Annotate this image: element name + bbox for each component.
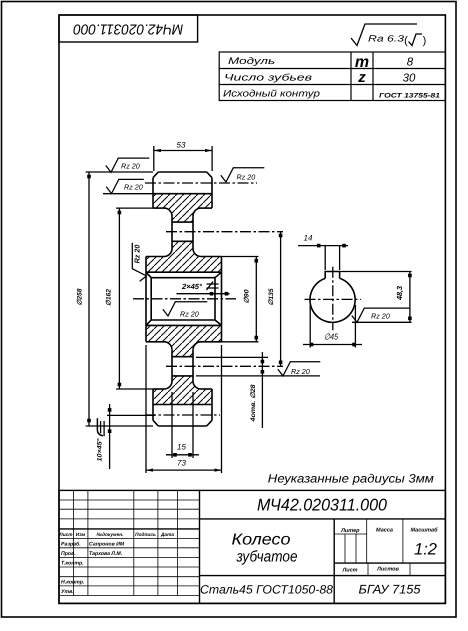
svg-text:Листов: Листов xyxy=(376,567,399,573)
hatched web bottom + rim bottom xyxy=(153,376,212,405)
roughness Rz20 bore xyxy=(163,302,208,316)
svg-text:1:2: 1:2 xyxy=(414,541,437,559)
svg-text:15: 15 xyxy=(177,443,186,452)
svg-text:Сталь45 ГОСТ1050-88: Сталь45 ГОСТ1050-88 xyxy=(200,583,333,597)
svg-text:Н.контр.: Н.контр. xyxy=(61,580,84,586)
svg-text:Т.контр.: Т.контр. xyxy=(61,561,84,567)
dimension 14 keyway width xyxy=(324,246,326,270)
svg-text:Rz 20: Rz 20 xyxy=(121,161,140,170)
svg-text:2×45°: 2×45° xyxy=(181,282,203,291)
svg-text:ГОСТ 13755-81: ГОСТ 13755-81 xyxy=(379,93,440,100)
svg-text:Колесо: Колесо xyxy=(232,532,291,549)
svg-text:Утв.: Утв. xyxy=(61,589,74,595)
svg-text:Подпись: Подпись xyxy=(135,532,156,538)
top-left document number box xyxy=(59,15,198,42)
dimension D135 hole circle xyxy=(280,232,282,367)
roughness Rz20 fillet (rotated) xyxy=(132,243,146,282)
dimension D45 bore xyxy=(309,305,311,348)
dimension D162 rim inner xyxy=(116,207,153,209)
svg-text:МЧ42.020311.000: МЧ42.020311.000 xyxy=(73,20,183,36)
svg-text:Ra 6.3: Ra 6.3 xyxy=(368,34,404,44)
svg-text:БГАУ 7155: БГАУ 7155 xyxy=(359,583,421,597)
svg-text:зубчатое: зубчатое xyxy=(236,549,298,566)
dimension D258 tip diameter xyxy=(86,171,153,173)
svg-text:Разраб.: Разраб. xyxy=(61,542,81,548)
svg-text:∅258: ∅258 xyxy=(77,288,84,305)
gear parameter table xyxy=(219,52,445,101)
root line extension left xyxy=(103,193,153,195)
svg-text:z: z xyxy=(357,69,366,86)
svg-text:8: 8 xyxy=(407,57,414,69)
hatched web/hub above bore xyxy=(146,241,222,272)
dimension 15 web thickness xyxy=(171,392,173,458)
svg-text:Исходный контур: Исходный контур xyxy=(223,89,320,100)
svg-text:∅90: ∅90 xyxy=(244,289,251,303)
svg-text:Пров.: Пров. xyxy=(61,551,76,557)
svg-text:∅162: ∅162 xyxy=(106,289,113,306)
svg-text:53: 53 xyxy=(177,141,186,150)
inner drawing frame xyxy=(59,15,445,603)
dimension 73 hub length xyxy=(145,345,147,473)
svg-text:10×45°: 10×45° xyxy=(97,438,104,461)
svg-text:Масса: Масса xyxy=(376,528,393,534)
right view bore circle with keyway xyxy=(310,272,355,323)
dimension 48.3 xyxy=(340,271,411,273)
dimension 53 xyxy=(153,146,155,171)
svg-text:Неуказанные радиусы 3мм: Неуказанные радиусы 3мм xyxy=(268,472,434,486)
svg-text:Масштаб: Масштаб xyxy=(410,527,438,534)
dimension D90 hub diameter xyxy=(222,256,259,258)
gear section outline xyxy=(146,172,222,426)
gear section hatched rim+web top xyxy=(153,194,212,222)
svg-text:Лист: Лист xyxy=(58,532,73,538)
dimension 4 holes D28 xyxy=(196,356,268,358)
right view vertical axis xyxy=(332,267,334,331)
title block xyxy=(59,490,445,603)
svg-text:Rz 20: Rz 20 xyxy=(180,309,199,318)
pitch line bottom xyxy=(145,414,220,416)
svg-text:Rz 20: Rz 20 xyxy=(237,173,256,182)
svg-text:48,3: 48,3 xyxy=(395,285,404,301)
right view horizontal axis xyxy=(305,298,361,300)
svg-text:Модуль: Модуль xyxy=(228,56,275,67)
pitch line top xyxy=(145,182,257,184)
bore axis xyxy=(133,298,236,300)
hole axis top xyxy=(166,231,283,233)
svg-text:Изм: Изм xyxy=(76,532,86,538)
svg-text:30: 30 xyxy=(403,73,416,85)
chamfer 10x45 dimension xyxy=(107,414,155,416)
svg-text:73: 73 xyxy=(177,459,186,468)
roughness Rz20 keyway xyxy=(352,308,410,322)
svg-text:4отв. ∅28: 4отв. ∅28 xyxy=(250,384,257,423)
svg-text:Rz 20: Rz 20 xyxy=(124,182,143,191)
svg-text:Rz 20: Rz 20 xyxy=(291,367,310,376)
roughness Rz20 right xyxy=(221,168,264,182)
svg-text:): ) xyxy=(423,35,427,47)
svg-text:14: 14 xyxy=(304,234,313,243)
roughness Rz20 tip surface xyxy=(106,158,150,172)
svg-text:МЧ42.020311.000: МЧ42.020311.000 xyxy=(257,496,388,515)
svg-text:Rz 20: Rz 20 xyxy=(133,245,142,264)
hole axis bottom xyxy=(166,365,283,367)
svg-text:Сапронов ИМ: Сапронов ИМ xyxy=(89,542,125,548)
hatched hub below bore + web xyxy=(146,325,222,356)
svg-text:Лист: Лист xyxy=(341,568,357,574)
svg-text:Дата: Дата xyxy=(160,532,174,538)
svg-text:Литер: Литер xyxy=(340,528,360,534)
svg-text:№докумен.: №докумен. xyxy=(97,532,124,538)
roughness Rz20 flank xyxy=(106,179,144,193)
svg-text:(: ( xyxy=(404,35,408,47)
svg-text:Rz 20: Rz 20 xyxy=(371,312,390,321)
svg-text:∅45: ∅45 xyxy=(324,332,338,342)
roughness Rz20 web xyxy=(278,362,321,376)
svg-text:Число зубьев: Число зубьев xyxy=(224,73,312,84)
svg-text:Тархова Л.М.: Тархова Л.М. xyxy=(89,551,122,557)
general roughness symbol Ra 6.3 xyxy=(351,24,417,46)
svg-text:∅135: ∅135 xyxy=(268,288,275,305)
